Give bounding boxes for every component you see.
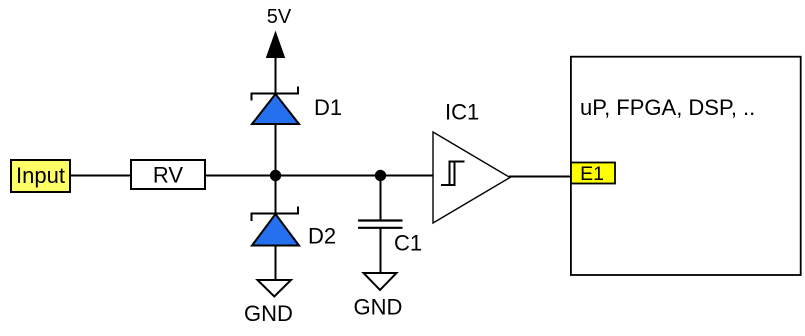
svg-text:E1: E1 [580, 163, 604, 185]
svg-text:RV: RV [153, 163, 183, 188]
svg-text:IC1: IC1 [445, 99, 479, 124]
svg-text:D1: D1 [314, 95, 342, 120]
svg-text:uP, FPGA, DSP, ..: uP, FPGA, DSP, .. [580, 95, 755, 120]
svg-text:C1: C1 [394, 231, 422, 256]
svg-text:D2: D2 [308, 224, 336, 249]
svg-text:5V: 5V [267, 6, 292, 28]
svg-text:GND: GND [244, 301, 293, 326]
svg-text:GND: GND [354, 295, 403, 320]
svg-text:Input: Input [16, 163, 65, 188]
